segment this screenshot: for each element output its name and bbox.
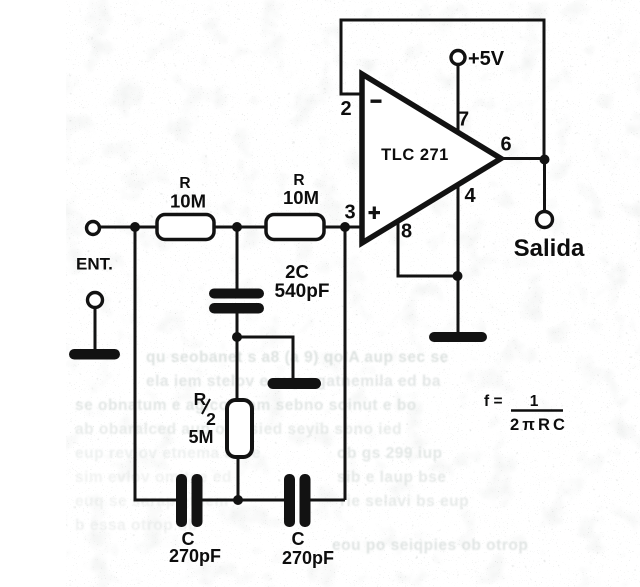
svg-text:10M: 10M: [283, 187, 319, 208]
svg-text:2: 2: [340, 98, 351, 120]
svg-text:270pF: 270pF: [169, 546, 221, 566]
svg-text:5M: 5M: [188, 427, 213, 447]
svg-text:ENT.: ENT.: [76, 255, 113, 274]
svg-text:rie selavi bs eup: rie selavi bs eup: [340, 493, 469, 510]
svg-text:6: 6: [500, 134, 511, 156]
svg-text:+5V: +5V: [468, 48, 505, 70]
svg-text:Salida: Salida: [514, 235, 585, 262]
svg-text:1: 1: [530, 393, 539, 410]
svg-text:sib e laup bse: sib e laup bse: [337, 469, 447, 486]
svg-text:eou po seiqpies ob otrop: eou po seiqpies ob otrop: [332, 537, 528, 554]
svg-text:3: 3: [344, 202, 355, 224]
svg-text:sim evlov omitse ed: sim evlov omitse ed: [75, 469, 232, 486]
svg-text:C: C: [292, 529, 305, 549]
svg-text:R: R: [194, 389, 207, 409]
svg-text:540pF: 540pF: [275, 281, 330, 302]
svg-text:8: 8: [401, 221, 412, 243]
svg-text:ob gs 299 iup: ob gs 299 iup: [337, 445, 443, 462]
svg-text:10M: 10M: [170, 191, 206, 212]
svg-text:2πRC: 2πRC: [510, 416, 568, 434]
svg-text:f =: f =: [484, 393, 503, 410]
svg-text:7: 7: [458, 109, 469, 131]
svg-text:2: 2: [206, 409, 216, 429]
svg-text:qu seobanet s a8 (a 9) qolA au: qu seobanet s a8 (a 9) qolA aup sec se: [146, 349, 449, 366]
svg-text:TLC 271: TLC 271: [381, 146, 449, 164]
svg-text:4: 4: [464, 185, 476, 207]
svg-text:270pF: 270pF: [282, 548, 334, 568]
svg-text:R: R: [179, 175, 190, 192]
svg-text:2C: 2C: [285, 261, 309, 282]
